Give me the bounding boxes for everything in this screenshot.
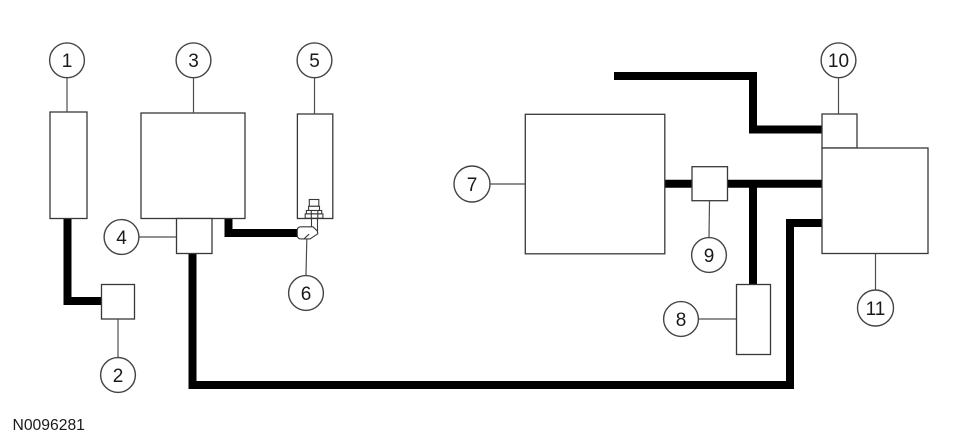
svg-text:9: 9 [704, 246, 715, 267]
svg-text:10: 10 [828, 51, 849, 72]
svg-text:11: 11 [866, 299, 886, 320]
svg-text:N0096281: N0096281 [13, 417, 85, 434]
svg-text:8: 8 [676, 310, 687, 331]
svg-text:6: 6 [301, 284, 312, 305]
svg-text:3: 3 [188, 51, 199, 72]
svg-text:5: 5 [309, 51, 320, 72]
svg-text:1: 1 [62, 51, 73, 72]
svg-text:4: 4 [116, 228, 127, 249]
svg-text:7: 7 [467, 175, 478, 196]
svg-text:2: 2 [113, 366, 124, 387]
